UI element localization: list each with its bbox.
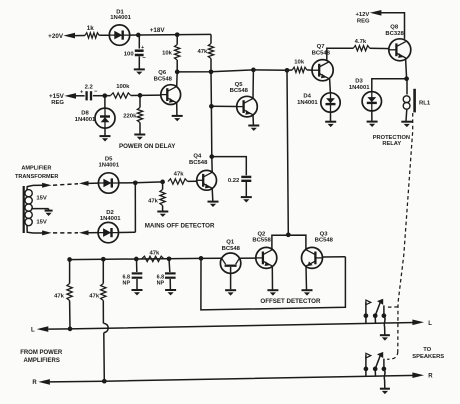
svg-text:SPEAKERS: SPEAKERS — [412, 354, 444, 360]
svg-text:47k: 47k — [149, 250, 160, 256]
ground below Q2 — [267, 289, 278, 291]
svg-text:BC548: BC548 — [222, 246, 241, 252]
wire Q7 collector — [327, 48, 354, 61]
svg-text:1N4001: 1N4001 — [349, 85, 370, 91]
svg-text:1N4001: 1N4001 — [297, 100, 318, 106]
resistor R 47k vertical mains — [162, 182, 164, 190]
arrow left bottom D2 — [79, 230, 89, 235]
ground below Q4 — [208, 201, 219, 203]
svg-text:6.8: 6.8 — [157, 274, 165, 280]
wire rail to Q1 — [201, 257, 222, 259]
svg-text:Q6: Q6 — [158, 70, 167, 76]
wire node to 47k — [135, 181, 162, 184]
svg-text:BC548: BC548 — [230, 88, 249, 94]
wire to Q5 base — [211, 105, 236, 107]
transistor Q6 BC548 — [161, 85, 181, 105]
diode D3 1N4001 — [362, 92, 381, 111]
svg-text:BC548: BC548 — [312, 50, 331, 56]
ground below cap1 — [132, 289, 143, 291]
ground below 0.22 — [241, 196, 252, 198]
svg-text:47k: 47k — [197, 49, 208, 55]
resistor R 47k vertical top — [210, 34, 212, 43]
svg-text:BC548: BC548 — [154, 76, 173, 82]
wire Q7 emitter — [329, 79, 332, 93]
wire riser D2 to D5 node — [134, 183, 136, 232]
wire D4 to ground — [330, 112, 332, 121]
+12V REG terminal — [370, 10, 382, 16]
capacitor C 2.2u — [85, 91, 87, 100]
svg-text:Q4: Q4 — [193, 154, 202, 160]
ground below Q3 — [302, 289, 313, 291]
svg-text:100k: 100k — [116, 84, 130, 90]
svg-text:FROM POWER: FROM POWER — [20, 350, 63, 356]
wire D2 to riser — [119, 231, 136, 233]
node Q5 collector — [251, 68, 256, 73]
node D5 D2 join — [133, 180, 138, 185]
diode D1 1N4001 — [109, 25, 129, 45]
transformer T1 winding — [25, 190, 32, 197]
dashed relay link — [398, 113, 413, 352]
svg-text:OFFSET DETECTOR: OFFSET DETECTOR — [260, 298, 321, 305]
node Q6 collector — [175, 70, 180, 75]
wire collector node to cap 0.22 — [212, 157, 247, 176]
wire node to D3 — [372, 79, 407, 92]
wire mid column lower — [210, 106, 212, 156]
transistor Q5 BC548 — [237, 96, 258, 117]
ground below RL1 — [401, 121, 412, 123]
wire 220k node to Q6 base — [140, 94, 161, 96]
arrow right bottom — [42, 230, 52, 235]
wire D8 to ground — [104, 128, 106, 135]
transistor Q8 BC328 — [389, 39, 411, 61]
wire +15V to C2.2 — [76, 95, 85, 97]
svg-text:47k: 47k — [174, 172, 185, 178]
wire cap1 ground lead — [136, 279, 138, 289]
wire hop to R line — [103, 333, 106, 382]
node +18V — [136, 33, 141, 38]
svg-text:TO: TO — [423, 347, 431, 353]
svg-text:BC328: BC328 — [385, 31, 404, 37]
svg-text:1N4001: 1N4001 — [98, 162, 119, 168]
svg-text:100: 100 — [124, 51, 135, 57]
wire mid column upper — [210, 72, 212, 107]
node cap2 top — [167, 256, 172, 261]
wire tee bar — [272, 235, 306, 248]
svg-text:1k: 1k — [87, 25, 95, 32]
svg-text:Q7: Q7 — [317, 44, 326, 50]
arrow R out — [412, 372, 424, 378]
svg-text:47k: 47k — [89, 294, 100, 300]
ground below D3 — [367, 121, 378, 123]
svg-text:PROTECTION: PROTECTION — [373, 135, 410, 141]
svg-text:NP: NP — [157, 280, 165, 286]
svg-text:1N4001: 1N4001 — [110, 15, 131, 21]
relay RL1 coil lead — [406, 79, 408, 95]
dashed wire bottom — [53, 232, 78, 234]
capacitor C 6.8 NP right — [168, 259, 171, 272]
relay contact L — [365, 316, 367, 324]
transistor Q2 BC558 — [256, 247, 277, 268]
wire R line — [50, 375, 416, 382]
wire 10k to Q7 base — [307, 69, 312, 71]
node 220k top — [138, 93, 143, 98]
node Q8 collector — [404, 76, 409, 81]
node 10k top — [175, 32, 180, 37]
ground below Q1 — [225, 289, 236, 291]
svg-text:15V: 15V — [36, 219, 47, 225]
svg-text:4.7k: 4.7k — [355, 39, 367, 45]
resistor R 4.7k — [353, 46, 369, 51]
ground below 47k mains — [157, 211, 168, 213]
svg-text:R: R — [32, 380, 37, 386]
svg-text:L: L — [428, 321, 432, 327]
svg-text:15V: 15V — [36, 195, 47, 201]
wire cap2 ground lead — [169, 279, 171, 289]
ground below Q5 — [248, 125, 259, 127]
node detector tee — [286, 232, 291, 237]
svg-text:REG: REG — [51, 100, 64, 106]
svg-text:Q1: Q1 — [226, 240, 235, 246]
svg-text:RL1: RL1 — [419, 101, 431, 107]
wire 47k to Q4 base — [188, 180, 197, 182]
wire C2.2 to node — [93, 95, 105, 97]
node delay input — [102, 93, 107, 98]
node 47k bottom — [209, 69, 214, 74]
resistor R 47k horizontal mains — [168, 179, 188, 184]
svg-text:BC548: BC548 — [189, 160, 208, 166]
node detector input — [199, 256, 204, 261]
svg-text:RELAY: RELAY — [382, 141, 401, 147]
svg-text:Q8: Q8 — [390, 25, 399, 31]
svg-text:10k: 10k — [162, 51, 173, 57]
svg-text:AMPLIFIER: AMPLIFIER — [21, 166, 51, 172]
svg-text:D3: D3 — [355, 79, 363, 85]
node cap1 top — [134, 257, 139, 262]
diode D8 1N4001 — [104, 96, 106, 108]
ground below cap2 — [165, 289, 176, 291]
capacitor C 100u — [135, 49, 144, 52]
svg-text:+: + — [80, 89, 83, 95]
svg-text:6.8: 6.8 — [123, 274, 131, 280]
node 47k R top — [101, 257, 106, 262]
wire base rail — [177, 70, 292, 72]
arrow right top — [42, 183, 52, 188]
wire 4.7k to Q8 base — [370, 47, 389, 49]
wire Q4 collector — [211, 157, 213, 173]
arrow L input — [37, 326, 49, 332]
resistor R 10k Q7 — [292, 67, 307, 72]
wire 100u to ground — [138, 56, 140, 68]
resistor R 47k sum — [142, 256, 164, 261]
capacitor C 0.22 — [241, 176, 251, 178]
wire D5 to node — [119, 182, 136, 184]
svg-text:+12V: +12V — [355, 12, 369, 18]
relay RL1 core — [413, 89, 416, 113]
svg-text:1N4001: 1N4001 — [75, 117, 96, 123]
svg-text:+15V: +15V — [49, 93, 65, 100]
wire L line — [48, 323, 415, 330]
ground below 100u — [134, 68, 145, 70]
svg-text:REG: REG — [357, 18, 370, 24]
wire Q5 emitter — [252, 115, 254, 125]
wire Q1 to Q2 base — [239, 257, 255, 259]
capacitor C 6.8 NP left — [136, 259, 138, 272]
+15V REG terminal — [64, 93, 76, 99]
dashed wire top — [53, 184, 78, 185]
wire Q3 base to box — [323, 256, 346, 258]
ground below Q6 — [172, 115, 183, 117]
relay contact R — [365, 369, 367, 376]
wire D3 to ground — [371, 111, 373, 121]
+20V supply terminal — [63, 33, 75, 39]
ground centre tap — [45, 210, 53, 212]
wire Q8 collector — [406, 59, 407, 79]
svg-text:POWER ON DELAY: POWER ON DELAY — [119, 143, 176, 150]
resistor R 47k left sense — [69, 260, 71, 284]
ground below D8 — [100, 135, 111, 137]
node L sense — [68, 327, 73, 332]
svg-text:Q5: Q5 — [235, 82, 244, 88]
node Q5 base — [209, 104, 214, 109]
ground below D4 — [325, 121, 336, 123]
svg-text:D4: D4 — [303, 94, 311, 100]
svg-text:47k: 47k — [148, 199, 159, 205]
wire 0.22 to ground — [245, 182, 247, 196]
svg-text:D8: D8 — [81, 111, 89, 117]
wire Q6 emitter — [176, 103, 178, 115]
wire bottom lead — [33, 232, 43, 234]
arrow R input — [38, 379, 50, 385]
resistor R 47k right sense — [102, 259, 104, 283]
svg-text:TRANSFORMER: TRANSFORMER — [15, 174, 59, 180]
wire Q4 emitter — [211, 188, 214, 201]
wire 1k to D1 — [99, 34, 109, 36]
wire hop over L line — [103, 323, 108, 332]
wire Q3 emitter down — [305, 266, 308, 289]
svg-text:BC548: BC548 — [315, 237, 334, 243]
relay RL1 coil — [403, 96, 410, 103]
wire top lead — [33, 184, 43, 186]
node R sense — [102, 379, 107, 384]
arrow L out — [412, 320, 424, 326]
svg-text:−: − — [142, 56, 146, 62]
svg-text:1N4001: 1N4001 — [100, 216, 121, 222]
wire box loop — [201, 257, 346, 310]
svg-text:47k: 47k — [54, 294, 65, 300]
wire Q3 collector up — [305, 249, 307, 250]
wire Q6 collector — [176, 72, 179, 87]
node detector output — [285, 68, 290, 73]
node Q4 collector — [209, 154, 214, 159]
svg-text:AMPLIFIERS: AMPLIFIERS — [24, 358, 60, 364]
wire +18V rail — [138, 33, 211, 36]
svg-text:+18V: +18V — [150, 27, 166, 34]
transistor Q3 BC548 — [302, 247, 323, 268]
wire Q5 collector — [252, 70, 254, 99]
transistor Q1 BC548 — [220, 253, 240, 273]
transformer centre tap — [31, 208, 48, 210]
transistor Q4 BC548 — [197, 170, 217, 190]
svg-text:220k: 220k — [123, 114, 137, 120]
svg-text:2.2: 2.2 — [85, 84, 94, 90]
svg-text:R: R — [428, 374, 433, 380]
wire detector riser — [287, 70, 288, 235]
wire Q2 collector down — [271, 266, 273, 289]
wire sense rail — [68, 258, 201, 259]
svg-text:MAINS OFF DETECTOR: MAINS OFF DETECTOR — [145, 223, 215, 230]
transformer T1 core — [23, 186, 25, 233]
wire +12V to Q8 emitter — [381, 13, 404, 39]
svg-text:0.22: 0.22 — [228, 178, 240, 184]
transistor Q7 BC548 — [312, 60, 333, 81]
svg-text:10k: 10k — [294, 59, 305, 65]
svg-text:L: L — [31, 328, 35, 334]
resistor R 1k — [85, 33, 99, 38]
node 47k L top — [67, 257, 72, 262]
capacitor 100u lead — [138, 35, 140, 49]
wire Q2 emitter up — [271, 249, 273, 250]
resistor R 220k — [139, 95, 141, 107]
wire to D5 — [88, 182, 98, 184]
svg-text:NP: NP — [123, 280, 131, 286]
svg-text:+20V: +20V — [48, 33, 64, 40]
diode D2 1N4001 — [98, 222, 118, 242]
resistor R 10k vertical — [176, 35, 178, 45]
svg-text:−: − — [94, 89, 98, 95]
wire +20V to R 1k — [75, 35, 85, 37]
wire D1 to +18V node — [130, 34, 139, 36]
svg-text:D2: D2 — [106, 210, 114, 216]
ground below 220k — [134, 134, 145, 136]
svg-text:+: + — [141, 45, 144, 51]
node mains detector — [160, 180, 165, 185]
svg-text:BC558: BC558 — [252, 237, 271, 243]
resistor R 100k — [105, 95, 111, 97]
arrow left top D5 — [79, 181, 89, 186]
diode D5 1N4001 — [98, 173, 118, 193]
wire to D2 — [88, 232, 98, 234]
diode D4 1N4001 — [321, 93, 340, 112]
